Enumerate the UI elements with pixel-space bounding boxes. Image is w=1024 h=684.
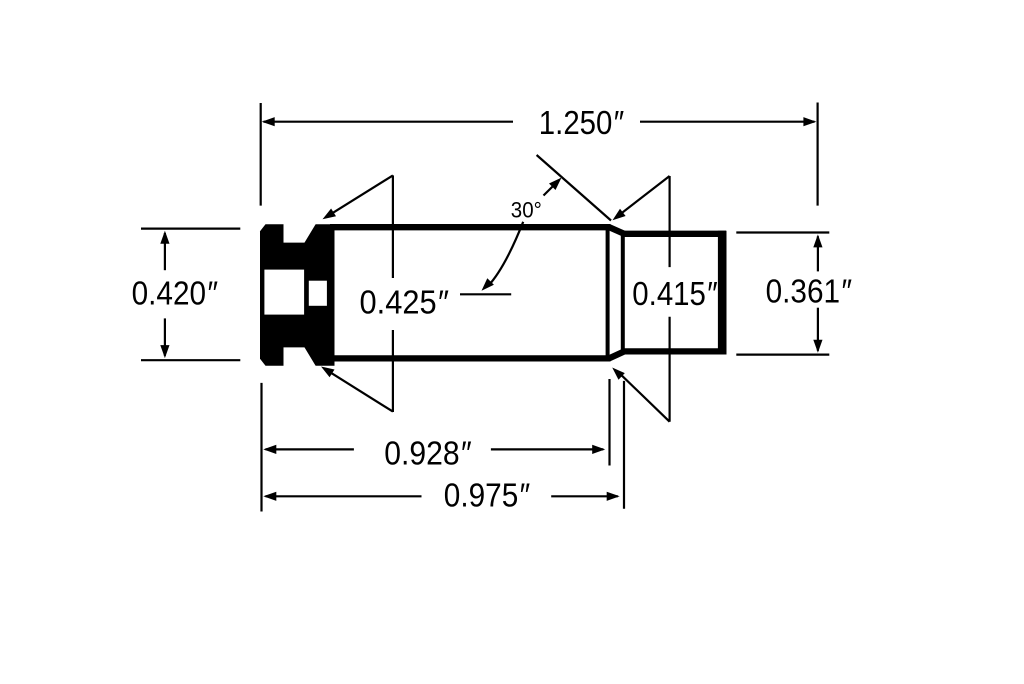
0.420in lower arrow	[164, 318, 166, 355]
right flag bottom diagonal with arrow	[620, 373, 670, 421]
svg-text:0.928″: 0.928″	[384, 435, 471, 472]
0.420in bottom tick	[141, 359, 240, 361]
0.361in lower arrow	[817, 308, 819, 351]
left flag bottom diagonal with arrow	[330, 372, 393, 411]
0.420in top tick	[141, 228, 240, 230]
0.975in dimension line left segment with arrow	[266, 495, 422, 497]
0.425in curved leader arrow from 30deg note	[489, 222, 524, 286]
0.928in dimension line right segment with arrow	[491, 448, 603, 450]
shoulder bottom slope	[609, 351, 625, 358]
0.361in upper arrow	[817, 236, 819, 271]
0.928in dimension line left segment with arrow	[266, 448, 354, 450]
shoulder top slope	[609, 227, 625, 234]
1.250in dimension line left segment with arrow	[264, 121, 514, 123]
right flag vertical (neck datum) upper segment	[668, 176, 670, 267]
30deg pointer arrow	[544, 183, 557, 196]
extractor groove bottom notch	[284, 347, 317, 366]
0.425in leader underline	[460, 293, 511, 295]
svg-text:0.361″: 0.361″	[766, 272, 852, 309]
neck-start vertical	[621, 232, 625, 353]
left flag top diagonal with arrow at body corner	[332, 175, 393, 213]
case head (rim / extractor groove / web) solid section	[260, 224, 335, 365]
shoulder angle reference diagonal	[537, 155, 611, 221]
svg-text:0.420″: 0.420″	[132, 275, 218, 312]
case body top wall	[330, 224, 611, 230]
primer pocket	[264, 270, 304, 315]
left flag vertical lower segment	[392, 330, 394, 412]
flash hole	[309, 281, 327, 306]
extractor groove top notch	[284, 223, 317, 242]
1.250in extension line right	[816, 103, 818, 206]
0.361in top tick	[736, 231, 829, 233]
svg-text:0.415″: 0.415″	[632, 275, 717, 312]
0.975in right extension line	[623, 381, 625, 509]
right flag top diagonal with arrow at shoulder corner	[620, 176, 670, 214]
svg-text:0.425″: 0.425″	[360, 283, 449, 320]
neck bottom wall	[622, 348, 726, 354]
case body bottom wall	[330, 355, 611, 361]
1.250in dimension line right segment with arrow	[640, 121, 815, 123]
0.975in dimension line right segment with arrow	[551, 495, 618, 497]
0.420in upper arrow	[164, 233, 166, 270]
svg-text:30°: 30°	[511, 198, 542, 223]
case mouth vertical	[718, 231, 727, 355]
neck top wall	[622, 231, 726, 237]
0.361in bottom tick	[736, 354, 829, 356]
right flag vertical lower segment	[668, 317, 670, 422]
0.928in right extension line	[608, 379, 610, 466]
body-end vertical (shoulder datum)	[606, 229, 610, 357]
svg-text:0.975″: 0.975″	[444, 477, 530, 514]
lower-left shared extension line	[260, 383, 262, 512]
1.250in extension line left	[260, 103, 262, 206]
svg-text:1.250″: 1.250″	[539, 104, 624, 141]
left flag vertical (body diameter datum) upper segment	[392, 175, 394, 278]
